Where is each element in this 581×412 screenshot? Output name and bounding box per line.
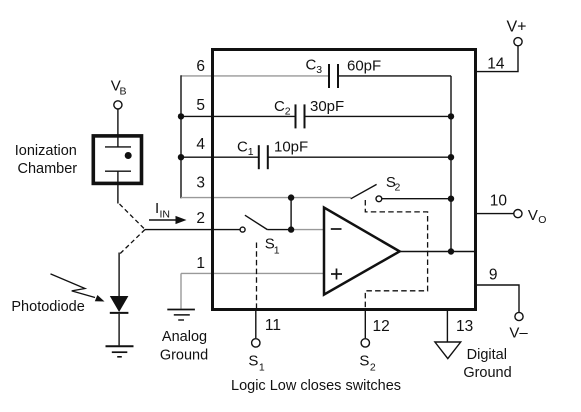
svg-text:Chamber: Chamber bbox=[17, 161, 77, 177]
svg-text:10pF: 10pF bbox=[274, 139, 308, 156]
svg-text:C: C bbox=[306, 57, 317, 74]
svg-text:5: 5 bbox=[196, 97, 205, 114]
svg-text:2: 2 bbox=[395, 182, 401, 194]
svg-text:10: 10 bbox=[490, 193, 508, 210]
svg-text:12: 12 bbox=[373, 318, 390, 335]
svg-text:2: 2 bbox=[370, 362, 376, 374]
svg-text:3: 3 bbox=[316, 64, 322, 76]
svg-text:1: 1 bbox=[196, 255, 205, 272]
svg-text:Ionization: Ionization bbox=[15, 143, 77, 159]
svg-text:S: S bbox=[359, 353, 369, 370]
svg-text:V+: V+ bbox=[506, 19, 526, 36]
svg-text:3: 3 bbox=[196, 175, 205, 192]
svg-text:30pF: 30pF bbox=[310, 98, 344, 115]
svg-text:C: C bbox=[274, 98, 285, 115]
svg-text:V–: V– bbox=[509, 325, 528, 342]
svg-text:C: C bbox=[237, 139, 248, 156]
svg-text:Logic Low closes switches: Logic Low closes switches bbox=[231, 378, 401, 394]
svg-text:S: S bbox=[248, 353, 258, 370]
svg-text:Digital: Digital bbox=[467, 347, 507, 363]
svg-text:O: O bbox=[538, 214, 546, 226]
svg-text:60pF: 60pF bbox=[347, 58, 381, 75]
svg-text:2: 2 bbox=[285, 106, 291, 118]
svg-text:9: 9 bbox=[489, 267, 498, 284]
svg-text:13: 13 bbox=[456, 318, 473, 335]
svg-text:4: 4 bbox=[196, 136, 205, 153]
svg-text:Photodiode: Photodiode bbox=[11, 299, 84, 315]
svg-text:14: 14 bbox=[487, 56, 505, 73]
svg-text:1: 1 bbox=[274, 245, 280, 257]
svg-text:V: V bbox=[528, 207, 538, 224]
svg-text:Analog: Analog bbox=[162, 329, 207, 345]
svg-text:IN: IN bbox=[160, 209, 171, 221]
svg-text:6: 6 bbox=[196, 58, 205, 75]
svg-text:11: 11 bbox=[265, 317, 281, 334]
svg-text:1: 1 bbox=[248, 146, 254, 158]
svg-text:2: 2 bbox=[196, 210, 205, 227]
svg-text:Ground: Ground bbox=[463, 365, 511, 381]
svg-text:B: B bbox=[120, 86, 127, 98]
svg-text:Ground: Ground bbox=[160, 348, 208, 364]
svg-text:1: 1 bbox=[259, 362, 265, 374]
